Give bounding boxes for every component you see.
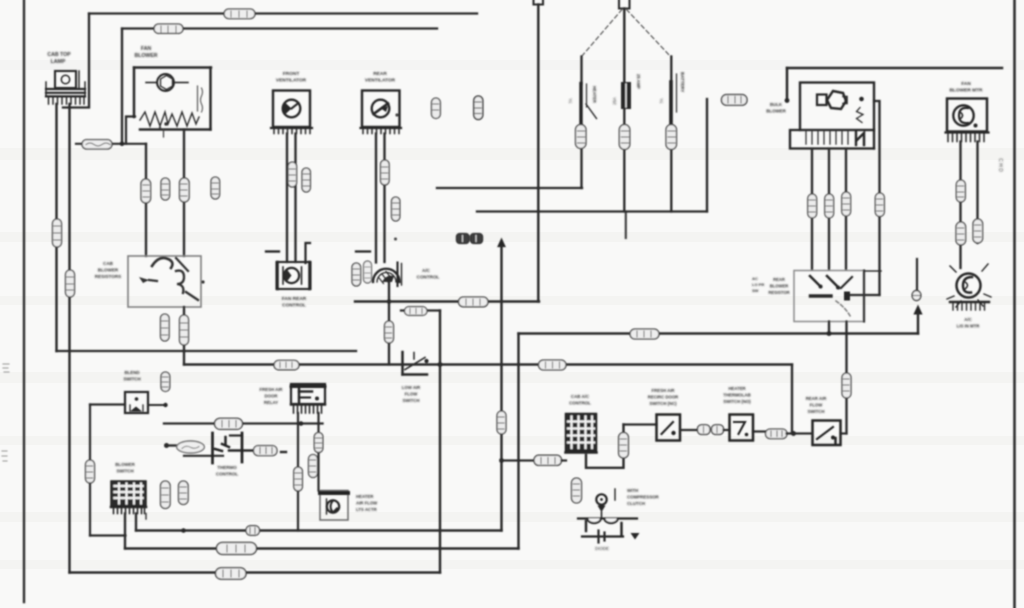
svg-text:BATTERY: BATTERY	[680, 72, 685, 92]
wire S2 to pill	[753, 430, 767, 432]
svg-text:BLOWER: BLOWER	[770, 284, 789, 289]
svg-text:CONTROL: CONTROL	[417, 275, 440, 280]
resistor winding inside blower box	[140, 112, 199, 126]
corner x90 to pin	[90, 534, 126, 536]
rear air switch box S3	[813, 421, 841, 446]
svg-text:LO PR: LO PR	[752, 282, 764, 287]
pill on rear vent leg	[381, 160, 390, 185]
label under condenser motor	[957, 317, 981, 329]
label CAB BLOWER RESISTORS	[95, 261, 121, 279]
relay pin comb	[806, 131, 848, 144]
svg-text:FRONT: FRONT	[283, 71, 300, 77]
pill on y460	[534, 455, 562, 465]
svg-text:REAR AIR: REAR AIR	[806, 396, 828, 401]
svg-text:SW: SW	[752, 288, 759, 293]
pill on bus y333	[630, 329, 659, 339]
small connector pair JBD	[457, 234, 483, 244]
wire top bus 2	[122, 27, 437, 29]
svg-text:BLOWER: BLOWER	[98, 268, 119, 273]
fan mtr leg right	[976, 142, 978, 244]
clutch frame	[585, 521, 587, 531]
svg-text:BLOWER MTR: BLOWER MTR	[949, 88, 983, 94]
svg-text:C H D: C H D	[997, 158, 1003, 172]
fresh air relay wire left pin down	[297, 413, 299, 531]
svg-text:SWITCH (NO): SWITCH (NO)	[723, 399, 751, 404]
tap stub below box	[163, 130, 165, 138]
fresh air relay wire right pin down	[317, 413, 319, 491]
wire y460 east	[502, 459, 537, 461]
riser x707	[706, 99, 708, 212]
wire top bus 1	[89, 12, 477, 14]
label REAR VENTILATOR	[365, 71, 396, 84]
blower switch comb	[111, 507, 146, 514]
pill on bus530	[246, 526, 260, 536]
top cap connector left	[534, 0, 544, 5]
ac control dome	[373, 263, 402, 287]
spare connector pill B	[211, 177, 220, 199]
pill on ac control drop wire	[385, 321, 394, 343]
spare connector pill D	[179, 481, 189, 505]
rear ventilator base comb	[361, 128, 402, 134]
label FRONT VENTILATOR	[276, 71, 307, 84]
stub dot	[785, 98, 790, 103]
svg-text:REAR: REAR	[773, 277, 785, 282]
blower switch block	[111, 481, 146, 507]
dashed feed left	[582, 10, 623, 57]
svg-text:BLEND: BLEND	[124, 370, 139, 375]
connector pill on relay wire 1	[808, 194, 817, 218]
svg-text:SWITCH: SWITCH	[116, 469, 133, 474]
svg-text:CONTROL: CONTROL	[216, 472, 238, 477]
resistor box internals	[810, 276, 852, 318]
spare pill right of legs	[302, 168, 310, 192]
bus top right y68	[787, 67, 1002, 70]
fan blower motor box	[134, 68, 211, 130]
svg-text:HEATER: HEATER	[728, 386, 746, 391]
wire down to resistor box (left)	[145, 144, 147, 256]
svg-text:CAB A/C: CAB A/C	[571, 394, 590, 399]
corner into switch box	[841, 432, 847, 434]
fan rear control box	[277, 262, 311, 289]
switch box S1	[657, 415, 681, 441]
fresh air relay comb	[291, 405, 325, 414]
label FAN REAR CONTROL	[282, 296, 307, 309]
relay contact dot	[859, 97, 864, 102]
svg-text:7A: 7A	[659, 98, 664, 103]
label fresh air recirc	[648, 388, 679, 406]
relay pin mark	[856, 131, 864, 145]
svg-text:VENTILATOR: VENTILATOR	[365, 78, 396, 84]
bus y211	[477, 210, 707, 212]
relay output wire 3	[845, 149, 847, 270]
connector pill on that wire	[141, 179, 151, 203]
rear ventilator leg 2	[383, 134, 385, 263]
bus y530	[136, 529, 502, 531]
side wire into box	[849, 294, 880, 296]
label cab ac control head	[569, 394, 591, 406]
mid bus y301	[355, 300, 539, 302]
thermostat output pill	[254, 446, 278, 456]
label rear air switch	[806, 396, 828, 414]
stub left of fan rear control	[266, 250, 279, 252]
bus y572	[70, 571, 441, 573]
svg-text:RESISTOR: RESISTOR	[768, 290, 789, 295]
spade pill on x298	[294, 467, 303, 491]
svg-text:BLOWER: BLOWER	[766, 109, 786, 114]
svg-text:SWITCH: SWITCH	[123, 377, 140, 382]
lamp CAB TOP LAMP connector	[46, 71, 85, 104]
junction dot at fused lead	[120, 142, 125, 147]
label BULK BLOWER relay	[766, 102, 786, 114]
svg-text:BULK: BULK	[770, 102, 783, 107]
thermostat underline	[184, 455, 223, 457]
front ventilator leg 1	[286, 134, 288, 263]
tick right of clutch circle	[614, 489, 616, 500]
label heater thermolab	[723, 386, 751, 404]
relay coil symbol	[817, 91, 847, 109]
dot above ac control	[394, 238, 397, 241]
condenser motor comb	[950, 302, 989, 310]
blower switch pin wire 1	[124, 514, 126, 549]
label blower resistor rear	[768, 277, 789, 295]
svg-text:FRESH AIR: FRESH AIR	[260, 387, 284, 392]
connector pill lower left leg	[956, 222, 966, 245]
fan mtr symbol	[953, 105, 977, 127]
mating connector pair	[698, 425, 724, 435]
wire into S3	[787, 432, 813, 434]
rear ventilator switch box	[362, 91, 400, 128]
pill 2 on x318 offset	[309, 455, 318, 478]
relay side wire right	[874, 101, 880, 295]
tick into lower box	[864, 270, 881, 272]
heater water valve box	[320, 491, 348, 521]
svg-text:HEATER: HEATER	[356, 494, 374, 499]
junction dot bus424/x298	[299, 421, 304, 426]
fan mtr comb	[946, 133, 989, 142]
wire pair to S2	[724, 429, 730, 431]
svg-text:CAB: CAB	[103, 261, 114, 266]
svg-text:25A: 25A	[612, 97, 617, 105]
svg-text:CONTROL: CONTROL	[282, 303, 306, 309]
fuse F1 heater	[568, 57, 597, 189]
label heater water valve	[356, 494, 378, 512]
pill 1 on x318	[314, 433, 323, 453]
pill on x90	[86, 460, 95, 483]
wire main drop x538	[537, 5, 539, 302]
left margin smudge 2	[2, 451, 7, 461]
bus y548	[125, 547, 519, 549]
drop x518	[517, 334, 519, 549]
small stub tick y435	[230, 434, 242, 436]
bus y424	[164, 422, 323, 424]
junction dot bus365/x440	[438, 362, 443, 367]
pill before junction	[766, 429, 788, 439]
pill on bus365 mid	[539, 360, 567, 370]
wire ac control right with pill	[401, 309, 440, 311]
svg-text:VENTILATOR: VENTILATOR	[276, 78, 307, 84]
lamp leg right	[68, 104, 70, 573]
wire resistor box to bus	[183, 307, 185, 365]
svg-text:BLOWER: BLOWER	[134, 53, 157, 59]
small dot right of rear ventilator	[395, 113, 398, 116]
big pill on bus424	[215, 418, 243, 429]
svg-text:CAB TOP: CAB TOP	[47, 52, 71, 58]
relay output wire 1	[811, 149, 813, 270]
frame left border	[23, 0, 25, 602]
svg-text:FAN: FAN	[961, 81, 971, 87]
connector pill on right leg	[66, 270, 75, 297]
bus y365	[184, 363, 792, 365]
wire loop to S1	[624, 423, 657, 425]
svg-text:SWITCH (NC): SWITCH (NC)	[649, 401, 677, 406]
svg-text:HEATER: HEATER	[592, 86, 597, 103]
label FRESH AIR DOOR RELAY	[260, 387, 284, 405]
fan blower mtr box	[947, 99, 987, 132]
pill on bus365 left	[274, 360, 299, 369]
label BLOWER SWITCH small box	[123, 370, 140, 382]
bracket right of fan rear control	[306, 243, 311, 263]
front ventilator base comb	[271, 128, 312, 134]
spare connector pill C	[161, 481, 171, 509]
drop x792 from bus365	[791, 365, 793, 434]
label blower switch	[115, 462, 135, 474]
connector pill on bus 1	[224, 9, 255, 19]
svg-text:DIODE: DIODE	[595, 546, 609, 551]
dashed feed right	[627, 10, 671, 57]
connector pill below resistor box (on wire)	[180, 315, 189, 345]
clutch coil line	[578, 517, 637, 519]
svg-text:LAMP: LAMP	[51, 59, 66, 65]
svg-text:A/C: A/C	[422, 268, 431, 273]
spare pill right of rear legs	[392, 197, 400, 221]
svg-text:COMPRESSOR: COMPRESSOR	[627, 495, 660, 500]
wire drop from bus1 to lamp	[63, 14, 89, 108]
arrow up to terminal	[913, 305, 922, 315]
ground arrow	[631, 533, 640, 540]
fuse F2 tail below bus	[625, 212, 627, 239]
thermostat contact bar 1	[211, 433, 214, 463]
svg-text:SWITCH: SWITCH	[403, 398, 420, 403]
junction dot y433	[791, 431, 796, 436]
front ventilator dial	[283, 100, 301, 118]
cab blower resistor box	[128, 256, 201, 307]
wire stub to blower box left	[126, 117, 135, 144]
connector pill on relay wire 2	[825, 194, 834, 218]
up arrow head x501	[497, 238, 506, 248]
AC relay box	[790, 83, 874, 149]
svg-text:FAN: FAN	[141, 46, 152, 52]
svg-text:FLOW: FLOW	[405, 392, 419, 397]
svg-text:THERMO: THERMO	[217, 465, 237, 470]
bus y333	[519, 332, 919, 335]
compressor clutch circle	[596, 494, 606, 504]
label small right mid	[752, 276, 764, 293]
bus y351	[57, 350, 357, 352]
front ventilator leg 2	[294, 134, 296, 263]
wire S1 to pair	[680, 429, 698, 431]
svg-text:RESISTORS: RESISTORS	[95, 274, 121, 279]
spare connector pill below resistor box	[161, 314, 170, 341]
svg-text:LTS ACTR: LTS ACTR	[356, 507, 378, 512]
svg-text:BLOWER: BLOWER	[115, 462, 135, 467]
bus y188	[437, 187, 582, 189]
pill on x501	[497, 411, 506, 434]
svg-text:FAN REAR: FAN REAR	[282, 296, 307, 302]
thermostat capillary oval	[177, 441, 205, 453]
cab control connector block	[566, 414, 597, 453]
junction dot on bus530	[181, 528, 186, 533]
fan mtr leg left	[959, 142, 961, 269]
blend door small box	[125, 392, 148, 413]
motor symbol	[146, 74, 188, 91]
rear blower resistor box	[794, 271, 864, 322]
svg-text:A/C: A/C	[964, 317, 971, 322]
block output loop	[586, 425, 624, 468]
svg-text:REAR: REAR	[373, 71, 387, 77]
front ventilator switch box	[273, 91, 310, 128]
fuse F2 ign	[612, 9, 641, 212]
label low air flow switch	[402, 385, 421, 403]
svg-text:CLUTCH: CLUTCH	[627, 501, 645, 506]
connector pill on relay wire 3	[842, 192, 851, 216]
connector pill on fan mtr left leg	[956, 180, 965, 202]
relay output wire 2	[828, 149, 830, 270]
connector pill on that wire	[180, 178, 190, 202]
wire x440 down	[439, 311, 441, 573]
connector pill on bus 2	[154, 24, 183, 33]
junction dot on mid bus	[387, 299, 392, 304]
pill on bus572	[216, 568, 247, 579]
wires below resistor box	[828, 322, 830, 334]
thermostat start dot	[164, 443, 169, 448]
svg-text:WITH: WITH	[627, 488, 638, 493]
pill on front vent leg	[288, 162, 297, 187]
compressor pill	[572, 478, 582, 503]
label thermostat	[216, 465, 238, 477]
pill 2 left of ac control	[364, 261, 372, 283]
drop from bus to stub	[786, 68, 789, 99]
svg-text:FLOW: FLOW	[810, 403, 824, 408]
svg-text:25 AMP: 25 AMP	[636, 74, 641, 89]
label FAN BLOWER MTR	[949, 81, 983, 94]
svg-text:LOW AIR: LOW AIR	[402, 385, 421, 390]
pill above bus424	[161, 372, 170, 392]
fresh air door relay box	[291, 384, 325, 404]
side wire pill	[875, 193, 884, 217]
blower switch pin wire 2	[135, 514, 137, 531]
svg-text:DOOR: DOOR	[265, 394, 279, 399]
relay resistor zigzag	[857, 108, 864, 123]
wire drop bus2 to junction	[121, 29, 123, 144]
svg-text:AC: AC	[752, 276, 758, 281]
resistor box internals	[139, 258, 205, 300]
pill on loop vertical	[619, 433, 629, 459]
left margin smudge 1	[3, 364, 9, 372]
wire x90 down	[89, 405, 91, 536]
wire fused lead at lamp	[76, 143, 146, 145]
label ac compressor clutch	[627, 488, 660, 506]
label FAN BLOWER	[134, 46, 157, 59]
label CAB TOP LAMP	[47, 52, 71, 65]
wire ac control down	[388, 282, 390, 365]
svg-text:LIS IN MTR: LIS IN MTR	[957, 324, 981, 329]
winding taps right	[197, 86, 199, 111]
connector pill on left leg	[53, 219, 62, 247]
spare connector pill A	[161, 178, 170, 200]
dangling wire with terminal	[916, 259, 918, 291]
connector pill on fan mtr right leg	[973, 219, 983, 243]
wire into blend box	[90, 403, 125, 405]
svg-text:CONTROL: CONTROL	[569, 401, 591, 406]
stub out of blend box with dot	[148, 404, 164, 406]
pill right of riser	[722, 95, 748, 106]
svg-text:THERMOLAB: THERMOLAB	[723, 393, 750, 398]
wire x501 down	[500, 246, 502, 531]
thermostat contact bar 2	[241, 433, 244, 462]
svg-text:7A: 7A	[568, 98, 573, 103]
junction dot x501 y460	[499, 458, 504, 463]
svg-text:AIR FLOW: AIR FLOW	[356, 501, 378, 506]
stub left of ac control	[356, 250, 370, 252]
pill left of ac control	[352, 263, 361, 286]
blower switch pin stub 3	[145, 514, 147, 520]
top cap connector center	[619, 0, 630, 9]
svg-text:RELAY: RELAY	[264, 400, 278, 405]
inline connector on fused lead	[82, 140, 112, 149]
label A/C CONTROL	[417, 268, 440, 280]
lamp leg left	[55, 104, 57, 351]
wire from blower box down	[183, 130, 185, 257]
svg-text:FRESH AIR: FRESH AIR	[652, 388, 676, 393]
rear ventilator leg 1	[375, 134, 377, 263]
svg-text:SWITCH: SWITCH	[808, 409, 825, 414]
spare pill top middle A	[432, 98, 441, 119]
svg-text:RECIRC DOOR: RECIRC DOOR	[648, 395, 679, 400]
low air flow switch symbol	[403, 352, 429, 375]
spare pill top middle B	[474, 96, 483, 120]
rear ventilator dial	[372, 100, 390, 118]
pill on x846	[842, 373, 851, 398]
pill on bus548	[217, 542, 257, 554]
switch box S2	[730, 415, 754, 441]
fuse F3 battery	[659, 57, 685, 212]
pill on mid bus	[459, 297, 489, 307]
condenser motor sunburst	[947, 264, 991, 307]
frame right border	[1013, 0, 1016, 608]
